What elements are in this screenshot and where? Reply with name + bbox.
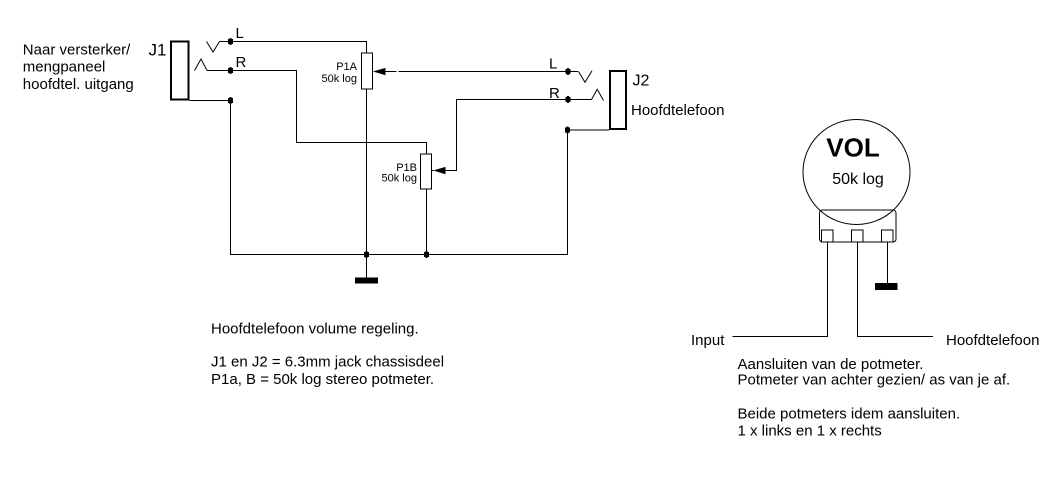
svg-text:VOL: VOL xyxy=(826,133,880,163)
svg-text:J1 en J2 = 6.3mm jack chassisd: J1 en J2 = 6.3mm jack chassisdeel xyxy=(211,354,444,371)
svg-text:R: R xyxy=(549,85,560,102)
svg-text:50k log: 50k log xyxy=(832,171,884,188)
svg-text:L: L xyxy=(549,56,557,73)
svg-text:L: L xyxy=(236,25,244,42)
svg-text:Hoofdtelefoon: Hoofdtelefoon xyxy=(946,332,1039,349)
svg-text:Potmeter van achter gezien/ as: Potmeter van achter gezien/ as van je af… xyxy=(738,372,1011,389)
svg-text:P1a, B = 50k log stereo potmet: P1a, B = 50k log stereo potmeter. xyxy=(211,371,434,388)
svg-text:Aansluiten van de potmeter.: Aansluiten van de potmeter. xyxy=(738,356,924,373)
svg-text:Hoofdtelefoon volume regeling.: Hoofdtelefoon volume regeling. xyxy=(211,321,419,338)
svg-text:1 x links en 1 x rechts: 1 x links en 1 x rechts xyxy=(738,423,882,440)
svg-text:50k log: 50k log xyxy=(382,173,417,185)
svg-text:R: R xyxy=(236,54,247,71)
svg-text:hoofdtel. uitgang: hoofdtel. uitgang xyxy=(23,76,134,93)
svg-text:Input: Input xyxy=(691,332,725,349)
svg-text:mengpaneel: mengpaneel xyxy=(23,59,106,76)
svg-text:Naar versterker/: Naar versterker/ xyxy=(23,42,131,59)
svg-text:Hoofdtelefoon: Hoofdtelefoon xyxy=(631,102,724,119)
svg-text:P1A: P1A xyxy=(336,61,357,73)
svg-text:50k log: 50k log xyxy=(322,73,357,85)
svg-text:Beide potmeters idem aansluite: Beide potmeters idem aansluiten. xyxy=(738,406,961,423)
svg-text:J2: J2 xyxy=(633,73,650,90)
svg-text:J1: J1 xyxy=(149,41,167,60)
